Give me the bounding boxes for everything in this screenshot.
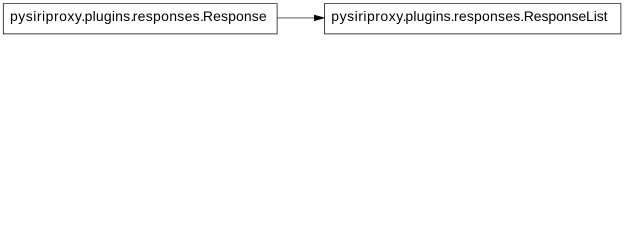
- node box pysiriproxy.plugins.responses.Response: [3, 3, 278, 34]
- svg-text:pysiriproxy.: pysiriproxy.: [10, 8, 86, 24]
- svg-text:plugins.: plugins.: [85, 8, 135, 24]
- svg-text:plugins.: plugins.: [405, 8, 454, 24]
- right box border top: [324, 3, 621, 5]
- wire edge Response to ResponseList: [277, 17, 315, 19]
- left box border top: [3, 3, 277, 5]
- right box border right: [620, 3, 622, 34]
- node box pysiriproxy.plugins.responses.ResponseList: [324, 3, 621, 34]
- left box border left: [2, 3, 4, 34]
- svg-text:Response: Response: [203, 8, 267, 24]
- right box border bottom: [324, 33, 621, 35]
- svg-text:ResponseList: ResponseList: [524, 8, 608, 24]
- arrowhead: [314, 15, 324, 21]
- right box border left: [324, 3, 326, 34]
- svg-text:pysiriproxy.: pysiriproxy.: [331, 8, 407, 24]
- left box border right: [276, 3, 278, 34]
- label pysiriproxy.plugins.responses.ResponseList: [331, 8, 607, 24]
- label pysiriproxy.plugins.responses.Response: [10, 8, 267, 24]
- svg-text:responses.: responses.: [133, 8, 204, 24]
- left box border bottom: [3, 33, 277, 35]
- svg-text:responses.: responses.: [454, 8, 524, 24]
